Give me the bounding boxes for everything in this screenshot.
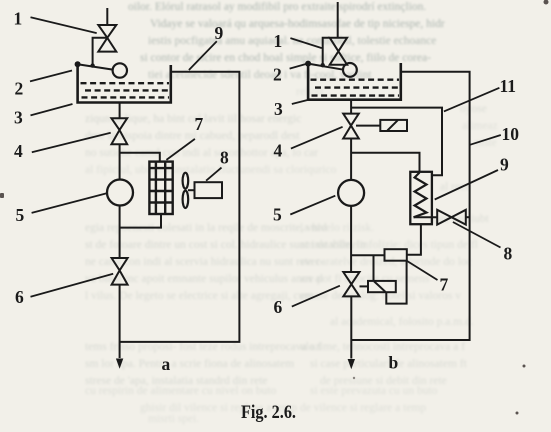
leader line 4a	[32, 133, 111, 153]
pump 5 (diagram b)	[338, 180, 364, 206]
leader line 8a	[206, 168, 221, 181]
box 7 (thermostatic valve, diagram b)	[385, 249, 407, 261]
leader line 5a	[32, 193, 107, 213]
leader line 7b	[407, 261, 437, 280]
pivot dot on tank rim (diagram a)	[75, 61, 81, 67]
pipe: branch to radiator (diagram a)	[120, 153, 160, 162]
svg-text:5: 5	[16, 205, 25, 225]
pipe: pump to valve 6 (diagram a)	[119, 206, 121, 259]
pipe: drop to solenoid box at valve 6b	[373, 255, 375, 281]
svg-text:4: 4	[274, 141, 283, 161]
svg-text:10: 10	[502, 124, 520, 144]
fan propeller 8 (diagram a)	[183, 173, 195, 208]
tank 3 (diagram a)	[78, 64, 171, 102]
pivot dot on tank rim (diagram b)	[305, 61, 311, 67]
svg-text:iestis pocfigatea amu aquiadal: iestis pocfigatea amu aquiadal. ne conti…	[148, 35, 436, 47]
valve 8 (horizontal bowtie, diagram b)	[437, 210, 466, 225]
pipe: U link between boxes (diagram b)	[386, 261, 406, 304]
heat exchanger 9 shell (diagram b)	[410, 172, 432, 224]
svg-text:4: 4	[14, 141, 23, 161]
bleed-through text layer	[128, 1, 445, 81]
linkage bracket of valve 1a	[93, 38, 108, 66]
valve 6 (diagram b)	[343, 272, 359, 296]
pipe 11 branch (upper bypass to heat exchanger, diagram b)	[351, 108, 442, 176]
leader line 9b	[435, 170, 498, 200]
svg-text:9: 9	[215, 23, 224, 43]
leader line 5b	[290, 196, 335, 215]
pipe: radiator return (diagram a)	[120, 214, 161, 228]
pipe: link valve 4b to solenoid	[356, 125, 380, 127]
svg-text:misrti spei.: misrti spei.	[148, 413, 199, 425]
svg-text:alimeaz: alimeaz	[462, 120, 498, 132]
svg-text:Fig. 2.6.: Fig. 2.6.	[241, 403, 296, 423]
svg-text:va bihal inc apoit emnante sup: va bihal inc apoit emnante supilor vehic…	[85, 273, 323, 285]
svg-text:la nivelo ri zisk.: la nivelo ri zisk.	[300, 222, 374, 234]
leader line 6b	[292, 286, 340, 307]
leader line 7a	[166, 139, 195, 160]
linkage dot (diagram b)	[321, 63, 325, 67]
valve 4 (diagram b)	[343, 114, 359, 139]
svg-text:1: 1	[14, 9, 23, 29]
leader line 2a	[30, 71, 72, 82]
leader line 9a	[189, 41, 217, 70]
pipe: main line to outlet arrow (diagram b)	[350, 296, 352, 358]
water dashes (diagram a)	[81, 83, 170, 97]
valve 6 (diagram a)	[112, 258, 128, 285]
svg-text:ste caratelve droized, adprind: ste caratelve droized, adprinde do loc	[300, 256, 472, 268]
svg-text:3: 3	[274, 99, 283, 119]
svg-text:11: 11	[500, 76, 517, 96]
pump 5 (diagram a)	[107, 180, 133, 206]
solenoid diagonal (valve 4b box)	[387, 120, 397, 130]
solenoid box at valve 4 (diagram b)	[380, 120, 407, 131]
svg-text:oilor. Elórul ratrasol ay modi: oilor. Elórul ratrasol ay modifibil pro …	[128, 1, 426, 13]
heat exchanger coil zigzag (diagram b)	[414, 173, 427, 218]
pipe: link solenoid to valve 6b	[360, 285, 369, 287]
pipe: main line valve4 to pump (diagram a)	[119, 144, 121, 180]
svg-text:ulozime, tehnocosti intreproca: ulozime, tehnocosti intreprocava a f	[300, 341, 465, 353]
svg-text:3: 3	[14, 108, 23, 128]
pipe: main valve4b to pump (diagram b)	[350, 139, 352, 180]
leader line 3a	[31, 104, 73, 115]
float 2 (diagram b)	[343, 63, 357, 77]
svg-text:6: 6	[15, 287, 24, 307]
svg-text:9: 9	[500, 155, 509, 175]
arrowhead outlet (diagram b)	[348, 359, 355, 369]
pipe: valve 8 to return pipe 10	[466, 216, 470, 218]
pipe 10 (tank overflow, right return, diagram b)	[351, 72, 469, 340]
leader line 4b	[291, 127, 343, 149]
float 2 (diagram a)	[113, 63, 127, 77]
svg-text:a: a	[162, 354, 171, 374]
svg-text:si este prevazuta cu un buto: si este prevazuta cu un buto	[310, 385, 438, 397]
svg-text:cu respirin de alimentare cu n: cu respirin de alimentare cu nivel on bu…	[85, 385, 277, 397]
valve 1a (float fill valve, vertical bowtie)	[98, 25, 116, 52]
svg-text:8: 8	[504, 244, 513, 264]
svg-text:5: 5	[273, 205, 282, 225]
svg-text:de vilence si reglare a temp: de vilence si reglare a temp	[300, 402, 426, 414]
water dashes (diagram b)	[311, 80, 400, 96]
pipe: box 7 to main line	[351, 254, 384, 256]
leader line 8b	[453, 222, 501, 248]
linkage dot (diagram a)	[90, 63, 94, 67]
svg-text:7: 7	[195, 114, 204, 134]
leader line 6a	[31, 274, 114, 297]
leader line 3b	[292, 100, 308, 104]
fan motor box 8 (diagram a)	[195, 182, 223, 198]
leader line 2b	[290, 64, 307, 69]
diagram ink layer	[30, 2, 501, 369]
leader line 10b	[470, 135, 501, 145]
svg-text:1: 1	[274, 31, 283, 51]
tank 3 (diagram b)	[308, 63, 401, 100]
svg-text:are pot fi inlocite cu semens: are pot fi inlocite cu semens	[300, 273, 430, 285]
svg-text:6: 6	[274, 297, 283, 317]
svg-text:si contor de sicire en chod ho: si contor de sicire en chod hoal simple …	[140, 52, 431, 64]
svg-text:7: 7	[440, 275, 449, 295]
svg-text:al fipiciul, ubiteral instalat: al fipiciul, ubiteral instalatio fluctun…	[85, 164, 337, 176]
valve 4 (diagram a)	[111, 118, 127, 144]
pipe: branch to heat exchanger (diagram b)	[351, 153, 419, 172]
float lever (diagram a)	[78, 64, 113, 69]
linkage bracket of valve 1b	[323, 38, 330, 65]
solenoid box at valve 6 (diagram b)	[368, 281, 396, 292]
pipe: heat exchanger outlet to valve 8	[414, 216, 438, 218]
arrowhead outlet (diagram a)	[116, 359, 123, 369]
pipe: heat exchanger bottom outlet to box 7	[407, 224, 421, 255]
pipe: main line to outlet arrow (diagram a)	[119, 285, 121, 358]
leader line 1a	[31, 17, 97, 33]
svg-text:al rece: al rece	[440, 181, 470, 193]
leader line 1b	[290, 38, 321, 48]
pipe: pump to valve 6 (diagram b)	[350, 206, 352, 272]
pipe: tank outlet down (diagram b)	[350, 100, 352, 114]
pipe: supply line into valve 1b	[337, 2, 339, 38]
svg-text:Vidaye se valoará qu arquesa-h: Vidaye se valoará qu arquesa-hodimsasofa…	[150, 18, 445, 30]
valve 1b (float fill valve, vertical bowtie)	[330, 38, 347, 65]
pipe 9 (tank overflow to return, diagram a)	[120, 72, 240, 342]
float lever (diagram b)	[308, 64, 343, 70]
svg-text:8: 8	[220, 148, 229, 168]
svg-text:b: b	[389, 353, 399, 373]
svg-text:2: 2	[15, 79, 24, 99]
svg-text:2: 2	[273, 65, 282, 85]
svg-text:oyose: oyose	[460, 103, 487, 115]
solenoid diagonal (valve 6b box)	[374, 281, 385, 291]
radiator 7 (diagram a)	[149, 162, 172, 214]
leader line 11b	[444, 88, 500, 112]
pipe: supply line into valve 1a	[106, 8, 108, 25]
pipe: tank outlet down (diagram a)	[119, 103, 121, 119]
